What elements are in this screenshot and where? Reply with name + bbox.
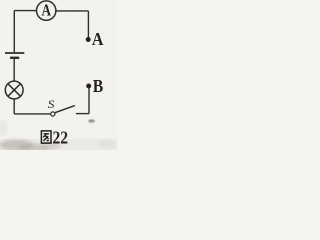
paper background	[0, 0, 117, 150]
wire ammeter to top-right corner	[56, 10, 89, 12]
wire top-left horizontal	[14, 10, 36, 12]
paper edge smudge bottom	[0, 139, 117, 150]
switch S	[48, 97, 75, 116]
ammeter A	[37, 1, 56, 21]
lamp	[5, 81, 23, 99]
wire right vertical to terminal B	[88, 88, 90, 114]
battery short plate	[10, 57, 19, 59]
battery	[5, 53, 24, 58]
node A terminal	[86, 29, 104, 49]
wire bottom rail to switch	[14, 113, 50, 115]
node B terminal	[86, 76, 103, 96]
wire switch to bottom-right corner	[76, 113, 89, 115]
glyph 图 drawn manually	[41, 131, 51, 143]
svg-text:A: A	[41, 1, 51, 20]
svg-text:S: S	[48, 97, 55, 111]
wire lamp to bottom rail	[13, 99, 15, 114]
battery long plate	[5, 52, 24, 54]
svg-text:22: 22	[53, 127, 69, 147]
caption 图22	[41, 127, 68, 147]
wire battery to lamp	[13, 58, 15, 81]
switch blade	[55, 106, 75, 113]
wire left vertical rail	[13, 11, 15, 53]
svg-text:B: B	[93, 76, 104, 96]
wire right vertical to terminal A	[87, 11, 89, 38]
svg-text:A: A	[92, 29, 104, 49]
